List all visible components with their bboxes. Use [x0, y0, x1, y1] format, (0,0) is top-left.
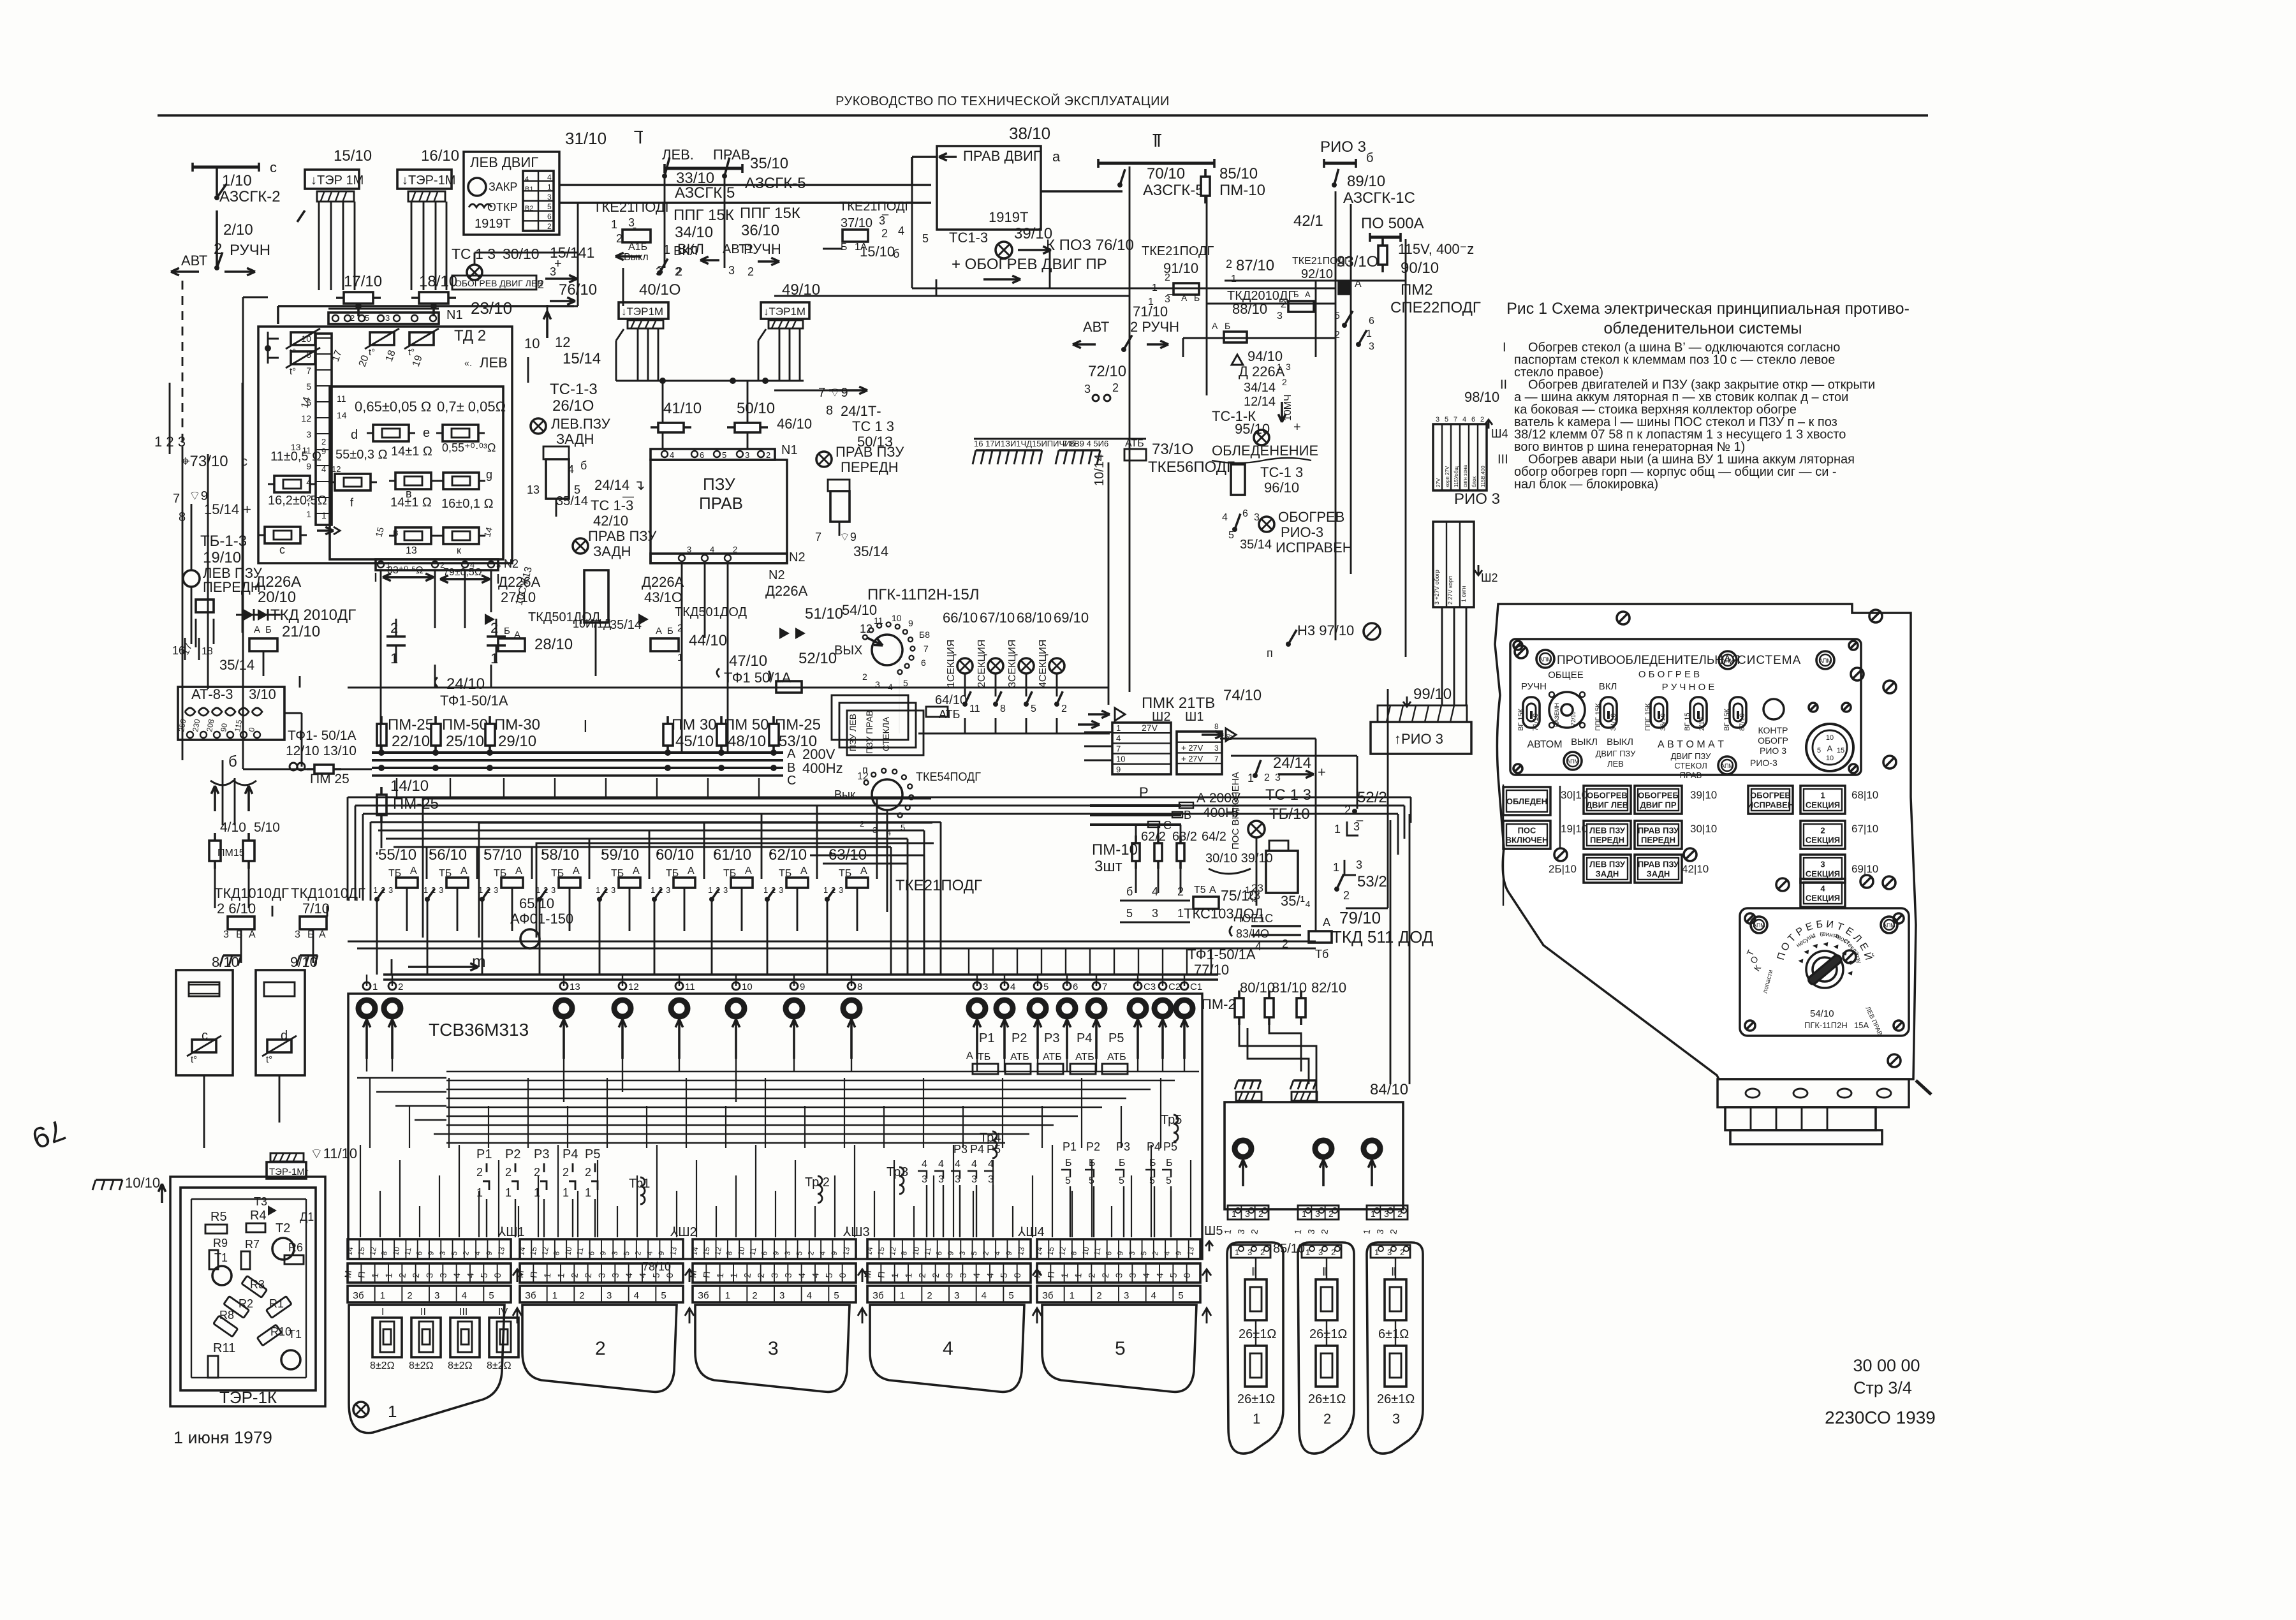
svg-text:56/10: 56/10 [429, 846, 467, 864]
svg-text:14±1 Ω: 14±1 Ω [390, 496, 432, 510]
svg-text:ТКЕ21ПОДГ: ТКЕ21ПОДГ [1142, 244, 1214, 258]
svg-text:93/1О: 93/1О [1337, 253, 1378, 270]
svg-text:4: 4 [670, 450, 674, 460]
svg-text:ВГ 15: ВГ 15 [1684, 712, 1691, 731]
svg-text:90: 90 [219, 723, 229, 733]
svg-text:t°: t° [290, 366, 296, 377]
svg-text:0,55⁺⁰·⁰³Ω: 0,55⁺⁰·⁰³Ω [442, 441, 496, 454]
svg-text:R8: R8 [219, 1309, 234, 1322]
svg-text:1: 1 [1253, 1411, 1260, 1427]
svg-text:R11: R11 [213, 1341, 235, 1355]
svg-text:ОБОГРЕБ: ОБОГРЕБ [1638, 791, 1679, 800]
svg-text:Р3: Р3 [1116, 1140, 1130, 1153]
svg-text:1: 1 [1177, 907, 1184, 920]
svg-text:А: А [460, 865, 467, 876]
svg-text:5: 5 [1115, 1338, 1126, 1359]
svg-text:ЛЕВ ПЗУ: ЛЕВ ПЗУ [1589, 826, 1626, 836]
svg-text:N2: N2 [789, 550, 806, 564]
svg-text:14±1 Ω: 14±1 Ω [391, 445, 432, 459]
svg-text:8±2Ω: 8±2Ω [487, 1360, 511, 1371]
svg-text:ОТКР: ОТКР [487, 201, 518, 214]
svg-text:Р4: Р4 [563, 1147, 578, 1161]
svg-text:5: 5 [574, 483, 580, 496]
svg-text:3: 3 [388, 885, 393, 895]
svg-text:ТС 1-3: ТС 1-3 [591, 497, 633, 513]
svg-text:+: + [1318, 764, 1326, 780]
svg-text:блок: блок [1471, 476, 1477, 487]
svg-text:Р У Ч Н О Е: Р У Ч Н О Е [1662, 682, 1715, 693]
svg-text:ПМ-25: ПМ-25 [388, 716, 434, 733]
svg-text:Д226А: Д226А [255, 573, 301, 591]
svg-text:⌖73/10: ⌖73/10 [181, 453, 228, 470]
svg-text:R9: R9 [213, 1237, 228, 1249]
svg-text:ЗАДН: ЗАДН [593, 543, 631, 559]
svg-text:А: А [1212, 321, 1218, 331]
svg-text:g: g [486, 468, 492, 481]
svg-text:СИСТЕМА: СИСТЕМА [1737, 654, 1801, 667]
svg-text:7: 7 [173, 492, 180, 506]
svg-text:10: 10 [524, 335, 540, 351]
svg-text:ПМ 50: ПМ 50 [724, 716, 769, 733]
svg-text:7: 7 [1214, 755, 1219, 763]
svg-text:ЛЕВ ДВИГ: ЛЕВ ДВИГ [470, 154, 538, 170]
svg-text:ПРАВ ПЗУ: ПРАВ ПЗУ [835, 444, 904, 460]
svg-text:24/14 ↴: 24/14 ↴ [594, 477, 645, 493]
svg-text:1: 1 [542, 1272, 553, 1278]
svg-text:2: 2 [752, 1290, 757, 1301]
svg-text:ДВИГ ПР: ДВИГ ПР [1640, 800, 1677, 810]
svg-text:74/10: 74/10 [1223, 687, 1262, 704]
svg-text:16±0,1 Ω: 16±0,1 Ω [441, 497, 494, 511]
svg-text:А: А [254, 624, 260, 635]
svg-text:4: 4 [807, 1290, 812, 1301]
svg-text:67/10: 67/10 [980, 610, 1015, 626]
svg-text:ПОС ВКЛЮЧЕНА: ПОС ВКЛЮЧЕНА [1230, 772, 1241, 850]
svg-text:10: 10 [1080, 1246, 1091, 1256]
svg-text:63/2: 63/2 [1172, 830, 1197, 844]
svg-text:4: 4 [634, 1290, 639, 1301]
svg-text:4: 4 [1222, 512, 1228, 523]
svg-text:2 27V корп: 2 27V корп [1447, 576, 1453, 605]
svg-text:4: 4 [1010, 982, 1015, 992]
svg-text:ПРАВ ПЗУ: ПРАВ ПЗУ [1638, 860, 1679, 869]
svg-text:3: 3 [957, 1272, 968, 1278]
svg-text:3: 3 [306, 429, 311, 439]
svg-text:Ш2: Ш2 [1481, 571, 1498, 584]
svg-text:26±1Ω: 26±1Ω [1377, 1392, 1415, 1406]
svg-text:5: 5 [1043, 982, 1049, 992]
svg-text:ЛЕВ.ПЗУ: ЛЕВ.ПЗУ [551, 416, 611, 432]
svg-text:ТКД 511 ДОД: ТКД 511 ДОД [1332, 927, 1434, 946]
svg-text:9: 9 [1116, 765, 1121, 774]
svg-text:5: 5 [651, 1272, 661, 1278]
svg-text:16,2±0,5Ω: 16,2±0,5Ω [268, 494, 327, 508]
svg-text:12: 12 [368, 1246, 378, 1256]
svg-text:t°: t° [369, 347, 375, 358]
svg-text:А: А [633, 865, 640, 876]
svg-text:5: 5 [1445, 416, 1448, 423]
svg-text:Б: Б [265, 624, 272, 635]
svg-text:СЕКЦИЯ: СЕКЦИЯ [1806, 800, 1840, 810]
svg-text:2: 2 [1112, 381, 1119, 394]
svg-text:М: М [688, 1270, 698, 1278]
svg-text:21/10: 21/10 [282, 623, 320, 640]
svg-text:2: 2 [1480, 416, 1484, 423]
svg-text:IV: IV [498, 1307, 508, 1318]
svg-text:ВЫКЛ: ВЫКЛ [1607, 737, 1633, 747]
svg-text:↓ТЭР-1М: ↓ТЭР-1М [402, 173, 455, 188]
svg-text:Зб: Зб [872, 1290, 884, 1301]
svg-text:АВТ1: АВТ1 [723, 242, 754, 256]
svg-text:АТБ: АТБ [939, 708, 960, 721]
svg-text:Р4: Р4 [1077, 1031, 1092, 1045]
svg-text:l: l [584, 717, 587, 736]
svg-text:2: 2 [505, 1166, 511, 1179]
svg-text:4: 4 [462, 1290, 467, 1301]
svg-text:4: 4 [637, 1272, 648, 1278]
svg-text:98/10: 98/10 [1464, 389, 1499, 405]
svg-text:ДВИГ ПЗУ: ДВИГ ПЗУ [1671, 751, 1712, 761]
svg-text:1: 1 [321, 510, 327, 520]
svg-text:2Б|10: 2Б|10 [1549, 863, 1577, 875]
svg-text:2СЕКЦИЯ: 2СЕКЦИЯ [976, 640, 987, 688]
svg-text:2: 2 [616, 232, 622, 245]
svg-text:М: М [515, 1270, 526, 1278]
svg-text:4: 4 [810, 1272, 821, 1278]
svg-text:9: 9 [800, 982, 805, 992]
svg-text:42|10: 42|10 [1682, 863, 1709, 875]
svg-text:7: 7 [306, 365, 311, 376]
svg-text:13: 13 [1186, 1246, 1196, 1256]
svg-text:36/10: 36/10 [1659, 713, 1667, 731]
svg-text:Б: Б [1816, 919, 1823, 931]
svg-text:4: 4 [971, 1272, 982, 1278]
svg-text:6: 6 [1242, 508, 1248, 519]
svg-text:26±1Ω: 26±1Ω [1309, 1327, 1347, 1341]
svg-text:ПЕРЕДН: ПЕРЕДН [841, 459, 899, 475]
svg-text:С2: С2 [1168, 982, 1181, 992]
svg-text:ТКЕ56ПОДГ: ТКЕ56ПОДГ [1148, 459, 1235, 476]
svg-text:2: 2 [350, 313, 355, 323]
svg-text:ПРАВ ДВИГ: ПРАВ ДВИГ [963, 148, 1041, 164]
svg-text:3: 3 [1369, 341, 1374, 352]
svg-text:1: 1 [563, 1186, 569, 1199]
svg-text:Р3: Р3 [1044, 1031, 1059, 1045]
svg-text:РУКОВОДСТВО ПО ТЕХНИЧЕСКОЙ ЭКС: РУКОВОДСТВО ПО ТЕХНИЧЕСКОЙ ЭКСПЛУАТАЦИИ [835, 93, 1170, 108]
svg-text:40/1О: 40/1О [639, 281, 681, 298]
svg-text:ЮЕ1С: ЮЕ1С [1239, 912, 1273, 925]
svg-text:ОБОГРЕВ: ОБОГРЕВ [1750, 791, 1791, 800]
svg-text:2: 2 [563, 1166, 569, 1179]
svg-text:«․: «․ [464, 358, 472, 368]
svg-text:АЗСГК-5: АЗСГК-5 [1143, 182, 1204, 199]
svg-text:⅄Ш4: ⅄Ш4 [1017, 1225, 1045, 1239]
svg-text:ПЕРЕДН: ПЕРЕДН [203, 579, 261, 595]
svg-text:В2: В2 [525, 205, 533, 212]
svg-text:11: 11 [685, 982, 695, 992]
svg-text:АПМ: АПМ [1539, 656, 1552, 663]
svg-text:15/10: 15/10 [860, 244, 895, 260]
svg-text:⅄Ш1: ⅄Ш1 [497, 1225, 525, 1239]
svg-text:Б: Б [1293, 290, 1299, 299]
svg-text:ТрЗ: ТрЗ [887, 1165, 908, 1179]
svg-text:5: 5 [1168, 1272, 1179, 1278]
svg-text:N2: N2 [769, 568, 785, 582]
svg-text:Тр1: Тр1 [629, 1177, 650, 1191]
svg-text:М: М [1032, 1270, 1043, 1278]
svg-text:1: 1 [725, 1290, 730, 1301]
svg-text:ПГК-11П2Н: ПГК-11П2Н [1804, 1020, 1848, 1030]
svg-text:б: б [893, 247, 899, 260]
svg-text:+ ОБОГРЕВ ДВИГ ПР: + ОБОГРЕВ ДВИГ ПР [952, 256, 1107, 273]
svg-text:9: 9 [321, 446, 326, 456]
svg-text:ТКД1010ДГ: ТКД1010ДГ [291, 885, 365, 901]
svg-text:12: 12 [1057, 1246, 1068, 1256]
svg-text:1 сигн: 1 сигн [1461, 586, 1467, 602]
svg-text:1: 1 [534, 1186, 540, 1199]
svg-text:А: А [515, 865, 522, 876]
svg-text:35/¹₄: 35/¹₄ [1281, 893, 1311, 909]
svg-text:25/10: 25/10 [446, 733, 484, 750]
svg-text:2: 2 [538, 278, 544, 291]
svg-text:I: I [381, 1307, 384, 1318]
svg-text:15А: 15А [1854, 1020, 1869, 1030]
svg-text:8±2Ω: 8±2Ω [370, 1360, 395, 1371]
svg-text:1: 1 [380, 1290, 385, 1301]
svg-text:2: 2 [766, 450, 770, 460]
svg-text:10: 10 [911, 1246, 921, 1256]
svg-text:78/10: 78/10 [642, 1260, 671, 1273]
svg-text:3: 3 [944, 1272, 955, 1278]
svg-text:Т1: Т1 [288, 1328, 302, 1341]
svg-text:АЗСГК-1С: АЗСГК-1С [1343, 189, 1415, 207]
svg-text:Р1: Р1 [1063, 1140, 1077, 1153]
svg-text:59/10: 59/10 [601, 846, 639, 864]
svg-text:1СЕКЦИЯ: 1СЕКЦИЯ [946, 640, 957, 688]
svg-text:96/10: 96/10 [1264, 480, 1299, 496]
svg-text:115В,400: 115В,400 [1480, 466, 1486, 487]
svg-text:ПМ-10: ПМ-10 [1092, 841, 1138, 858]
svg-text:3: 3 [1214, 744, 1219, 753]
svg-text:92/10: 92/10 [1301, 267, 1333, 281]
svg-text:ЛЕВ ПЗУ: ЛЕВ ПЗУ [1589, 860, 1626, 869]
svg-text:I: I [1503, 341, 1506, 355]
svg-text:2: 2 [321, 437, 326, 446]
svg-text:Зб: Зб [525, 1290, 536, 1301]
svg-text:к: к [457, 545, 462, 556]
svg-text:3: 3 [439, 885, 443, 895]
svg-text:4: 4 [1152, 885, 1158, 898]
svg-text:8: 8 [857, 982, 862, 992]
svg-text:6±1Ω: 6±1Ω [1378, 1327, 1409, 1341]
svg-text:30|10: 30|10 [1690, 823, 1717, 835]
svg-text:52/10: 52/10 [798, 650, 837, 667]
svg-text:А: А [656, 626, 662, 637]
svg-text:27V: 27V [1142, 723, 1158, 733]
svg-text:3: 3 [783, 1272, 793, 1278]
svg-text:III: III [459, 1307, 467, 1318]
svg-text:1: 1 [728, 1272, 739, 1278]
svg-text:400Hz: 400Hz [802, 760, 843, 776]
svg-text:3: 3 [596, 1272, 607, 1278]
svg-text:4: 4 [710, 545, 714, 554]
svg-text:ПЗУ: ПЗУ [703, 475, 735, 494]
svg-text:8: 8 [1000, 703, 1006, 714]
svg-text:2: 2 [547, 222, 552, 231]
svg-text:Т5: Т5 [1194, 885, 1206, 895]
svg-text:57/10: 57/10 [483, 846, 522, 864]
svg-text:34/10: 34/10 [1610, 713, 1617, 731]
svg-text:72/10: 72/10 [1088, 363, 1126, 380]
svg-text:АФ01-150: АФ01-150 [510, 911, 573, 927]
svg-text:3: 3 [839, 885, 843, 895]
svg-text:Б: Б [1194, 293, 1200, 303]
svg-text:Стр 3/4: Стр 3/4 [1853, 1378, 1912, 1397]
svg-text:Д226А: Д226А [765, 583, 808, 599]
svg-text:48/10: 48/10 [728, 733, 766, 750]
svg-text:АВТОМ: АВТОМ [1527, 739, 1562, 750]
svg-text:4: 4 [898, 225, 904, 237]
svg-text:А: А [787, 747, 796, 761]
svg-text:4: 4 [321, 464, 326, 474]
svg-text:нал блок — блокировка): нал блок — блокировка) [1514, 478, 1658, 492]
svg-text:5: 5 [478, 1272, 489, 1278]
svg-text:11: 11 [337, 394, 346, 404]
svg-text:2: 2 [742, 1272, 753, 1278]
svg-text:10/10: 10/10 [125, 1175, 160, 1191]
svg-text:РИО 3: РИО 3 [1320, 138, 1366, 156]
svg-text:ТБ-1-3: ТБ-1-3 [200, 533, 247, 550]
svg-text:10/14: 10/14 [1093, 454, 1107, 486]
svg-text:А В Т О М А Т: А В Т О М А Т [1658, 739, 1724, 750]
svg-text:R6: R6 [288, 1241, 303, 1254]
svg-text:3: 3 [424, 1272, 435, 1278]
svg-text:5: 5 [1031, 703, 1036, 714]
svg-text:2: 2 [677, 623, 683, 634]
svg-text:ТКД501ДОД: ТКД501ДОД [528, 610, 600, 624]
svg-text:R4: R4 [250, 1209, 267, 1223]
svg-text:30 00 00: 30 00 00 [1853, 1356, 1920, 1375]
svg-text:ВКЛ: ВКЛ [1599, 681, 1617, 692]
svg-text:1: 1 [556, 1272, 566, 1278]
svg-text:84/10: 84/10 [1370, 1081, 1408, 1098]
svg-text:d: d [281, 1029, 288, 1043]
svg-text:10: 10 [736, 1246, 746, 1256]
svg-text:2: 2 [398, 982, 403, 992]
svg-text:35/14: 35/14 [556, 494, 588, 508]
svg-text:46/10: 46/10 [777, 416, 812, 432]
svg-text:24/14: 24/14 [1273, 755, 1311, 772]
svg-text:15/14 +: 15/14 + [204, 501, 251, 517]
svg-text:ДВИГ ПЗУ: ДВИГ ПЗУ [1596, 749, 1637, 758]
svg-text:Рис 1 Схема электрическая при: Рис 1 Схема электрическая принципиальная… [1506, 300, 1910, 318]
svg-text:1: 1 [372, 982, 378, 992]
svg-text:АВТ: АВТ [1083, 319, 1109, 335]
svg-text:2: 2 [676, 265, 682, 278]
svg-text:ВКЛ: ВКЛ [677, 241, 704, 257]
svg-text:ТД 2: ТД 2 [454, 327, 486, 344]
svg-text:28/10: 28/10 [534, 636, 573, 653]
svg-text:99/10: 99/10 [1413, 686, 1452, 703]
svg-text:РИО-3: РИО-3 [1281, 524, 1323, 540]
svg-text:11: 11 [874, 615, 883, 626]
svg-text:ЛЕВ.: ЛЕВ. [662, 147, 694, 163]
svg-text:62/10: 62/10 [769, 846, 807, 864]
svg-text:4/10: 4/10 [220, 820, 246, 835]
svg-text:12: 12 [555, 334, 570, 350]
svg-text:ПМ 25: ПМ 25 [310, 772, 350, 786]
svg-text:4: 4 [797, 1272, 807, 1278]
svg-text:4: 4 [568, 463, 574, 476]
svg-text:Д226А: Д226А [642, 574, 684, 590]
svg-text:Р2: Р2 [1012, 1031, 1027, 1045]
svg-text:7: 7 [1453, 416, 1457, 423]
svg-text:4: 4 [547, 173, 552, 182]
svg-text:5: 5 [834, 1290, 839, 1301]
svg-text:2: 2 [756, 1272, 767, 1278]
svg-text:2: 2 [1281, 299, 1286, 310]
svg-text:20/10: 20/10 [258, 589, 296, 606]
svg-text:3: 3 [723, 885, 728, 895]
svg-text:3: 3 [1124, 1290, 1129, 1301]
svg-text:А: А [1181, 293, 1188, 303]
svg-text:79±0,5Ω: 79±0,5Ω [443, 567, 482, 578]
svg-text:70/10: 70/10 [1147, 165, 1185, 182]
svg-text:ДВИГ ЛЕВ: ДВИГ ЛЕВ [1586, 800, 1628, 810]
svg-text:АТБ: АТБ [1125, 438, 1144, 449]
svg-text:Б: Б [667, 626, 673, 637]
svg-text:68|10: 68|10 [1851, 789, 1878, 801]
svg-text:2230СО 1939: 2230СО 1939 [1825, 1408, 1936, 1427]
svg-text:7 ⌔9: 7 ⌔9 [818, 386, 848, 400]
svg-text:4: 4 [624, 1272, 635, 1278]
svg-text:с: с [202, 1029, 208, 1043]
svg-text:+ 27V: + 27V [1181, 754, 1203, 763]
svg-text:ПГК-11П2Н-15Л: ПГК-11П2Н-15Л [867, 586, 980, 603]
svg-text:3: 3 [745, 450, 749, 460]
svg-text:1: 1 [611, 218, 617, 231]
svg-text:Б: Б [1166, 1158, 1173, 1168]
svg-text:35/14: 35/14 [1240, 538, 1272, 552]
svg-text:ТФ1- 50/1А: ТФ1- 50/1А [288, 728, 356, 743]
svg-text:5: 5 [489, 1290, 494, 1301]
svg-text:26/1О: 26/1О [552, 397, 594, 415]
svg-text:1: 1 [677, 652, 683, 663]
svg-text:26±1Ω: 26±1Ω [1308, 1392, 1346, 1406]
svg-text:34/10: 34/10 [675, 224, 713, 241]
svg-text:Б: Б [504, 626, 510, 637]
svg-text:ЗАДН: ЗАДН [1647, 869, 1670, 879]
svg-text:ТКЕ54ПОДГ: ТКЕ54ПОДГ [916, 770, 981, 783]
svg-text:1: 1 [373, 885, 378, 895]
svg-text:9: 9 [908, 618, 913, 628]
svg-text:ПОС: ПОС [1518, 826, 1536, 836]
svg-text:2: 2 [583, 1272, 594, 1278]
svg-text:5: 5 [823, 1272, 834, 1278]
svg-text:ОБОГР: ОБОГР [1758, 735, 1788, 746]
svg-text:Ⅱ̅: Ⅱ̅ [1152, 131, 1162, 151]
svg-text:73/1О: 73/1О [1152, 441, 1193, 458]
svg-text:АПМ: АПМ [1566, 758, 1579, 765]
svg-text:15/10: 15/10 [334, 147, 372, 165]
svg-text:Р5: Р5 [987, 1143, 1001, 1156]
svg-text:15: 15 [701, 1246, 711, 1256]
svg-text:54/10: 54/10 [842, 602, 877, 618]
svg-text:ПЕРЕДН: ПЕРЕДН [1590, 836, 1624, 845]
svg-text:РУЧН: РУЧН [1521, 681, 1547, 692]
svg-text:Б: Б [1225, 321, 1230, 331]
svg-text:30/10 39/10: 30/10 39/10 [1205, 851, 1273, 865]
